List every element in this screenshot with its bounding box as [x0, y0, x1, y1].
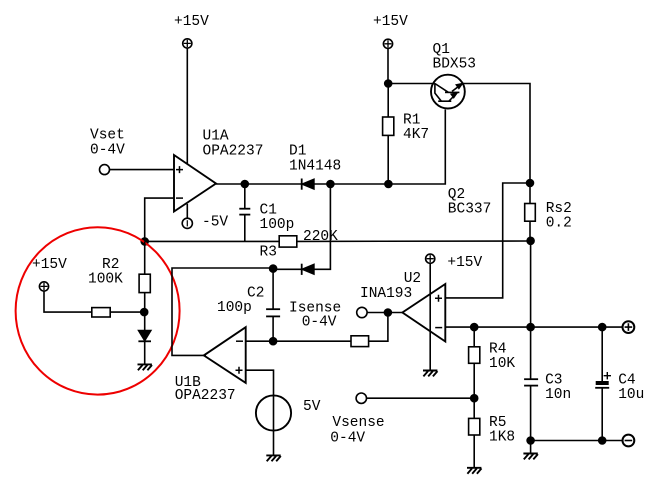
svg-text:INA193: INA193: [360, 286, 412, 302]
wire Isense terminal to U2 input: [367, 312, 402, 314]
ground (5V source): [266, 455, 281, 461]
node C1 tap: [241, 181, 248, 188]
wire D1 node down to D2: [314, 184, 331, 269]
resistor (series with R2 node): [92, 308, 110, 317]
wire Vsense to node: [367, 397, 475, 399]
node R4 top: [471, 324, 478, 331]
wire C3 bottom to ground: [530, 441, 532, 454]
power +15V symbol (Q1 rail): [383, 39, 392, 48]
terminal output plus: [623, 321, 635, 333]
svg-text:Vsense: Vsense: [332, 415, 384, 431]
wire resistor to node: [110, 311, 144, 313]
red highlight circle: [16, 227, 180, 394]
node Isense: [384, 309, 391, 316]
diode D1: [302, 179, 314, 190]
resistor R4: [469, 327, 480, 398]
svg-text:100p: 100p: [217, 300, 252, 316]
wire U1B minus input: [246, 340, 351, 342]
diode (R2 clamp, pointing down): [138, 331, 151, 365]
wire node to Q1 collector: [388, 83, 435, 85]
svg-text:R1: R1: [403, 113, 420, 129]
node C2 top: [270, 265, 277, 272]
svg-text:D1: D1: [289, 144, 306, 160]
ground (U2): [423, 371, 438, 377]
ground (C3 rail): [523, 454, 538, 460]
svg-text:0.2: 0.2: [546, 216, 572, 232]
svg-text:Vset: Vset: [90, 128, 125, 144]
wire resistor to Isense node: [369, 313, 388, 342]
svg-text:+15V: +15V: [32, 257, 67, 273]
resistor R1: [383, 84, 394, 185]
node Rs2 top: [527, 180, 534, 187]
node C3 top rail: [527, 324, 534, 331]
node R2/diode: [141, 309, 148, 316]
terminal Isense: [357, 307, 367, 317]
svg-text:100K: 100K: [88, 272, 123, 288]
ground (R2 diode): [138, 364, 153, 370]
source 5V: [256, 395, 291, 455]
power -5V symbol (U1A negative supply): [182, 204, 192, 229]
wire U2 supply through to ground: [429, 263, 431, 370]
svg-text:U1A: U1A: [203, 129, 229, 145]
terminal Vsense: [356, 393, 366, 403]
op-amp U2: [402, 284, 445, 342]
node C2 bottom: [270, 338, 277, 345]
svg-text:U2: U2: [404, 271, 421, 287]
wire +15V down and right: [44, 291, 92, 312]
node C4 top: [599, 324, 606, 331]
svg-text:+15V: +15V: [373, 14, 408, 30]
wire +15V to U1A top: [186, 48, 188, 165]
svg-text:0-4V: 0-4V: [302, 315, 337, 331]
ground (R5): [467, 468, 482, 474]
wire Q1 emitter to right rail: [462, 84, 530, 184]
svg-text:-5V: -5V: [202, 215, 228, 231]
node feedback corner: [141, 238, 148, 245]
svg-text:+15V: +15V: [447, 255, 482, 271]
svg-text:BDX53: BDX53: [433, 57, 477, 73]
svg-text:C1: C1: [260, 203, 277, 219]
diode D2 (unlabeled): [273, 264, 314, 275]
capacitor C4 polarized: [595, 327, 611, 440]
node +15V/R1/Q1: [385, 80, 392, 87]
wire U1B plus input to 5V: [246, 370, 274, 395]
wire Rs2 bottom to minus rail: [530, 241, 532, 327]
power +15V symbol (U1A supply): [183, 39, 192, 48]
svg-text:R3: R3: [260, 245, 277, 261]
svg-text:5V: 5V: [303, 399, 321, 415]
svg-text:0-4V: 0-4V: [330, 431, 365, 447]
capacitor C3: [524, 327, 538, 440]
capacitor C1: [239, 184, 250, 241]
wire main feedback/output rail: [145, 240, 280, 242]
power +15V symbol (R2 area): [39, 282, 48, 291]
node Rs2 bottom: [527, 237, 534, 244]
svg-text:100p: 100p: [260, 217, 295, 233]
svg-text:OPA2237: OPA2237: [203, 144, 264, 160]
resistor R5: [469, 398, 480, 467]
power +15V symbol (U2): [426, 254, 435, 263]
wire U2 minus to output terminal: [445, 326, 622, 328]
op-amp U1A: [174, 155, 216, 212]
svg-text:220K: 220K: [303, 229, 338, 245]
svg-text:10u: 10u: [618, 387, 644, 403]
svg-text:1K8: 1K8: [489, 430, 515, 446]
svg-text:BC337: BC337: [448, 202, 492, 218]
node C4 bottom: [599, 437, 606, 444]
node R1 bottom: [385, 181, 392, 188]
node C3 bottom: [527, 437, 534, 444]
wire output-node loop (U1B output to D2/C2): [172, 268, 273, 355]
svg-text:+15V: +15V: [174, 14, 209, 30]
terminal Vset: [100, 165, 110, 175]
terminal output minus: [623, 435, 635, 447]
wire stub Rs2 top to sense line: [445, 183, 530, 298]
svg-text:0-4V: 0-4V: [90, 143, 125, 159]
wire Vset to U1A + input: [110, 169, 175, 171]
svg-text:OPA2237: OPA2237: [175, 388, 236, 404]
capacitor C2: [266, 269, 280, 342]
node Vsense/R4/R5: [471, 395, 478, 402]
op-amp U1B: [204, 327, 246, 383]
resistor (Isense series, unlabeled): [351, 336, 369, 347]
wire bottom rail to minus terminal: [531, 440, 623, 442]
wire U1A output to Q1 base: [216, 110, 445, 185]
resistor R2: [139, 241, 150, 330]
resistor Rs2: [525, 183, 536, 241]
transistor Q1 (with Q2 darlington): [431, 75, 465, 109]
svg-text:10n: 10n: [545, 387, 571, 403]
node D2 tap: [327, 181, 334, 188]
wire U1A feedback (minus input to node): [145, 198, 174, 241]
svg-text:1N4148: 1N4148: [289, 159, 341, 175]
resistor R3: [279, 236, 297, 247]
svg-text:4K7: 4K7: [403, 127, 429, 143]
svg-text:10K: 10K: [489, 356, 515, 372]
wire +15V down to node: [387, 48, 389, 83]
